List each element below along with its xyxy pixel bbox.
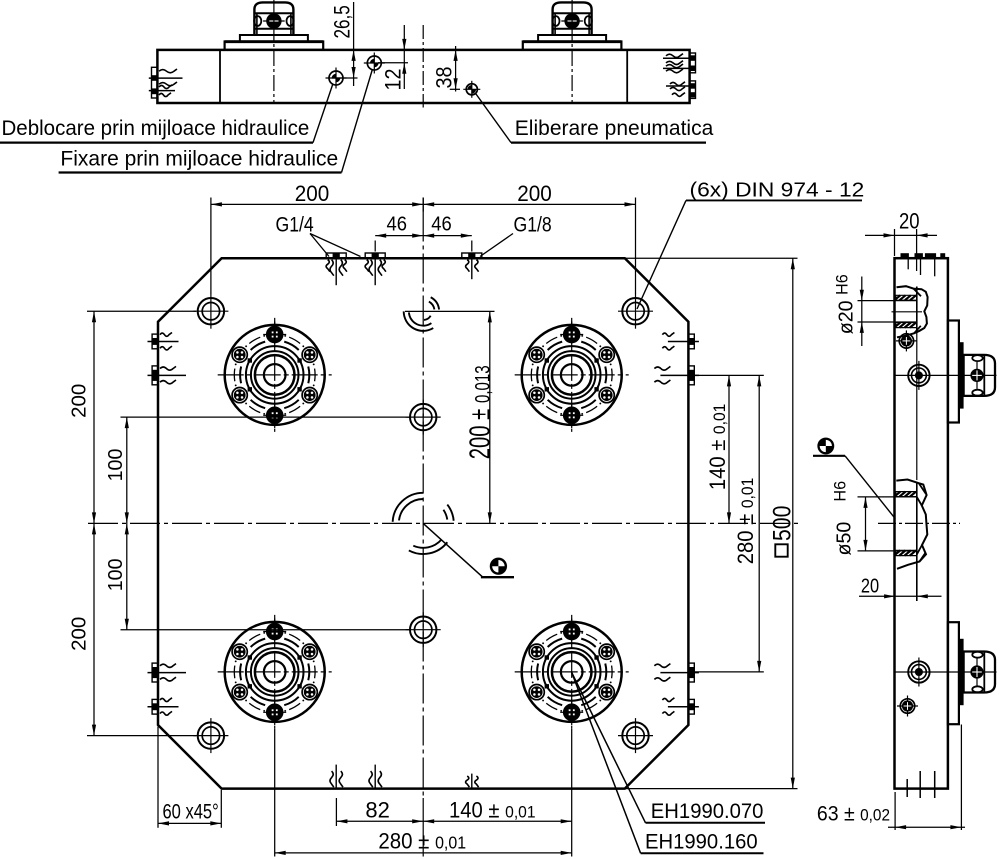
svg-text:20: 20 [899, 210, 920, 234]
pin groove line [983, 652, 985, 693]
svg-text:20: 20 [861, 574, 879, 597]
datum target symbol [490, 558, 507, 575]
flange circles [543, 643, 601, 701]
hatch band bottom of socket50 [896, 550, 917, 555]
right end port center lines [663, 57, 690, 59]
dim 200 left upper [93, 311, 95, 735]
bottom edge port a [335, 765, 337, 789]
dim 280 bottom [274, 729, 276, 857]
flange screw filled at 270 deg [266, 407, 283, 424]
flange screw filled at 90 deg [266, 326, 283, 343]
top view section line left [219, 50, 221, 103]
top view centerline main [422, 25, 424, 108]
stud ball left [254, 16, 261, 26]
svg-text:200: 200 [295, 182, 330, 207]
svg-text:63 ± 0,02: 63 ± 0,02 [817, 803, 890, 826]
dark screw upper side view [896, 340, 917, 342]
datum target side view [817, 438, 834, 455]
arc group at 200 reference point [404, 311, 434, 330]
flange screw socket at 210 deg [529, 685, 544, 700]
flange screw socket at 330 deg [599, 685, 614, 700]
top view left end fixture [152, 67, 158, 98]
svg-text:G1/4: G1/4 [276, 213, 314, 237]
flange bolt circle dash-dot [611, 666, 613, 679]
svg-text:EH1990.070: EH1990.070 [651, 800, 764, 823]
dark screw lower side view [897, 705, 918, 707]
clamping stud lip [240, 35, 308, 42]
corner screw DIN974 top-left [193, 310, 228, 312]
left dim stack extension lines [87, 310, 196, 312]
svg-text:280 ± 0,01: 280 ± 0,01 [734, 478, 758, 565]
screw deblocare (hydraulic release) [326, 77, 347, 79]
center screw upper [406, 416, 441, 418]
center screw lower [406, 629, 441, 631]
dim 26,5 [353, 2, 355, 86]
pin ball bottom [972, 390, 982, 396]
datum target leader [423, 523, 483, 577]
flange screw socket at 330 deg [302, 388, 317, 403]
svg-text:140 ± 0,01: 140 ± 0,01 [449, 799, 536, 823]
dim 20 top side view [894, 229, 896, 256]
svg-text:100: 100 [105, 449, 127, 482]
module spacer band [959, 342, 964, 408]
pin groove line [983, 355, 985, 396]
clamping stud base slab [225, 42, 324, 50]
bottom edge port c [471, 774, 473, 789]
module center line [895, 374, 997, 376]
side view centerline [878, 522, 960, 524]
clamping stud base slab [523, 42, 622, 50]
dim 200 +- 0,013 vertical [405, 310, 495, 312]
left edge port small upper [152, 334, 158, 349]
top edge port G1/8 [462, 253, 482, 258]
flange outer circle [225, 325, 325, 425]
clamping stud head [553, 2, 592, 35]
flange index tabs [297, 387, 301, 391]
dim 82 / 140 bottom [335, 798, 337, 826]
svg-text:46: 46 [386, 214, 406, 236]
socket20 bore between [916, 332, 918, 480]
stud centerline [571, 0, 573, 103]
svg-text:200: 200 [68, 384, 91, 418]
pin ball bottom [972, 686, 982, 692]
dim 200/200 top [210, 198, 212, 295]
flange screw socket at 330 deg [599, 388, 614, 403]
flange outer circle [522, 622, 622, 722]
side view body [895, 258, 948, 788]
flange screw socket at 210 deg [232, 388, 247, 403]
left edge port big lower [152, 663, 158, 682]
stud ball right [287, 16, 294, 26]
svg-text:280 ± 0,01: 280 ± 0,01 [378, 829, 466, 854]
svg-text:200 ± 0,013: 200 ± 0,013 [464, 365, 496, 459]
flange crosshair [218, 671, 332, 673]
main vertical centerline [422, 198, 424, 212]
stud head inner lines [254, 12, 293, 14]
flange index tabs [594, 387, 598, 391]
hatch band bottom of socket20 [896, 323, 917, 328]
right edge port big upper [688, 366, 694, 385]
module ring screw [918, 658, 920, 687]
arc group at plate center [393, 493, 424, 522]
top edge port G1/4 b [365, 253, 385, 258]
pin center dot [976, 362, 978, 389]
top view right end fixture [690, 53, 696, 73]
dim 63 +- 0,02 [894, 792, 896, 830]
svg-text:46: 46 [431, 214, 451, 236]
bottom edge port b [374, 765, 376, 789]
dim 140 +- 0,01 right [728, 375, 730, 523]
clamping stud head [254, 2, 293, 35]
flange screw socket at 330 deg [302, 685, 317, 700]
left edge port small lower [152, 699, 158, 714]
socket diameter50 H6 [896, 480, 927, 569]
flange screw socket at 30 deg [302, 644, 317, 659]
flange screw socket at 150 deg [529, 347, 544, 362]
flange crosshair [218, 374, 332, 376]
svg-text:Eliberare pneumatica: Eliberare pneumatica [515, 117, 714, 140]
dim 100 left [126, 417, 128, 630]
side view top edge port marks [901, 253, 909, 258]
stud center ball [561, 20, 583, 22]
flange bolt circle dash-dot [314, 369, 316, 382]
hatch band top of socket50 [896, 492, 917, 497]
svg-text:140 ± 0,01: 140 ± 0,01 [706, 404, 730, 491]
pin ball top [972, 652, 982, 658]
flange outer circle [225, 622, 325, 722]
flange crosshair [515, 374, 629, 376]
flange index tabs [594, 684, 598, 688]
right edge port small lower [688, 699, 694, 714]
socket20 bore line [916, 287, 918, 334]
corner screw DIN974 bottom-right [618, 735, 653, 737]
socket50 bore line [916, 482, 918, 601]
svg-text:200: 200 [68, 617, 91, 651]
dim diameter 50 H6 [858, 496, 917, 498]
stud center ball [263, 20, 285, 22]
stud head inner lines [553, 12, 592, 14]
svg-text:G1/8: G1/8 [514, 213, 552, 237]
flange screw socket at 30 deg [599, 644, 614, 659]
main horizontal centerline [88, 522, 800, 524]
dim diameter 20 H6 [858, 300, 917, 302]
flange circles [543, 346, 601, 404]
flange recess arcs [605, 664, 606, 681]
pin ball top [972, 355, 982, 361]
svg-text:500: 500 [768, 506, 796, 541]
flange screw filled at 90 deg [266, 623, 283, 640]
flange screw filled at 270 deg [563, 704, 580, 721]
main plate octagon outline [158, 258, 688, 788]
svg-text:38: 38 [432, 66, 456, 88]
flange screw filled at 90 deg [563, 623, 580, 640]
left end port1 center line [149, 77, 183, 79]
flange screw socket at 150 deg [529, 644, 544, 659]
flange index tabs [297, 684, 301, 688]
corner screw DIN974 top-right [618, 310, 653, 312]
module center line [895, 671, 997, 673]
screw eliberare pneumatica [463, 88, 480, 90]
flange screw socket at 30 deg [302, 347, 317, 362]
module ring screw [918, 361, 920, 390]
svg-text:12: 12 [381, 68, 405, 90]
flange circles [246, 346, 304, 404]
stud ball right [585, 16, 592, 26]
flange screw filled at 270 deg [563, 407, 580, 424]
flange recess arcs [308, 664, 309, 681]
svg-text:Fixare prin mijloace hidraulic: Fixare prin mijloace hidraulice [60, 147, 338, 170]
dim square 500 [792, 258, 794, 788]
side view port stubs [907, 259, 909, 269]
stud ball left [552, 16, 559, 26]
flange screw socket at 210 deg [529, 388, 544, 403]
svg-text:26,5: 26,5 [330, 5, 355, 38]
dim 46/46 [374, 241, 376, 252]
left edge port big upper [152, 366, 158, 385]
right end thread squiggles [666, 54, 683, 58]
dim 38 [455, 46, 457, 92]
dim 280 +- 0,01 right [758, 375, 760, 672]
svg-text:200: 200 [517, 182, 552, 207]
svg-text:100: 100 [105, 558, 127, 591]
top edge port G1/4 a [326, 253, 346, 258]
flange screw socket at 150 deg [232, 347, 247, 362]
left end port2 center line [149, 90, 175, 92]
stud centerline [273, 0, 275, 103]
module pin [964, 652, 995, 693]
left end thread squiggles [159, 69, 177, 73]
module spacer band [959, 639, 964, 705]
corner screw DIN974 bottom-left [193, 735, 228, 737]
dim 60 x45 chamfer [157, 727, 159, 828]
socket diameter20 H6 [897, 286, 928, 337]
svg-text:Deblocare prin mijloace hidrau: Deblocare prin mijloace hidraulice [2, 117, 310, 140]
module pin [964, 355, 995, 396]
svg-text:60 x45°: 60 x45° [163, 801, 219, 824]
hatch band top of socket20 [896, 295, 917, 300]
flange crosshair [515, 671, 629, 673]
flange screw socket at 30 deg [599, 347, 614, 362]
clamping stud lip [538, 35, 606, 42]
flange screw socket at 210 deg [232, 685, 247, 700]
socket20 center line [892, 311, 923, 313]
right edge port big lower [688, 663, 694, 682]
flange bolt circle dash-dot [314, 666, 316, 679]
bottom break ticks side view [906, 779, 908, 797]
module flange plate [948, 622, 959, 724]
flange recess arcs [308, 367, 309, 384]
svg-text:82: 82 [365, 798, 389, 823]
flange screw filled at 270 deg [266, 704, 283, 721]
screw fixare (hydraulic clamp) [364, 62, 385, 64]
top view plate body [157, 50, 689, 103]
module flange plate [948, 321, 959, 423]
svg-text:(6x) DIN 974 - 12: (6x) DIN 974 - 12 [690, 179, 865, 201]
top view section line right [626, 50, 628, 103]
right dims extension lines [694, 374, 764, 376]
flange outer circle [522, 325, 622, 425]
right edge port small upper [688, 334, 694, 349]
dim 12 [403, 25, 405, 89]
flange bolt circle dash-dot [611, 369, 613, 382]
svg-text:EH1990.160: EH1990.160 [645, 830, 758, 853]
flange screw socket at 150 deg [232, 644, 247, 659]
flange screw filled at 90 deg [563, 326, 580, 343]
flange recess arcs [605, 367, 606, 384]
pin center dot [976, 659, 978, 686]
flange circles [246, 643, 304, 701]
